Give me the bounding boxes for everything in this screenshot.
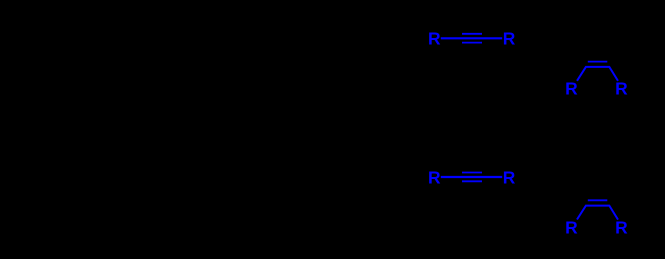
wire: alkene 1 skeleton (diag-horizontal-diag) <box>577 67 618 81</box>
wire: alkyne 2 triple bond middle line <box>441 176 502 178</box>
wire: alkyne 2 triple bond top line <box>462 172 482 174</box>
wire: alkyne 1 triple bond middle line <box>441 37 502 39</box>
wire: alkene 1 double bond inner line <box>588 61 608 63</box>
svg-text:R: R <box>565 79 578 99</box>
alkyne 2: R-C#C-R (bottom) <box>428 167 516 187</box>
svg-text:R: R <box>428 167 441 187</box>
svg-text:R: R <box>428 29 441 49</box>
svg-text:R: R <box>615 79 628 99</box>
svg-text:R: R <box>503 29 516 49</box>
wire: alkyne 1 triple bond bottom line <box>462 42 482 44</box>
wire: alkene 2 skeleton (diag-horizontal-diag) <box>577 206 618 220</box>
cis-alkene 2 (bottom right) <box>565 200 628 237</box>
svg-text:R: R <box>503 167 516 187</box>
alkyne 1: R-C#C-R (top) <box>428 29 516 49</box>
wire: alkene 2 double bond inner line <box>588 199 608 201</box>
svg-text:R: R <box>565 217 578 237</box>
wire: alkyne 2 triple bond bottom line <box>462 180 482 182</box>
cis-alkene 1 (top right) <box>565 62 628 99</box>
wire: alkyne 1 triple bond top line <box>462 33 482 35</box>
svg-text:R: R <box>615 217 628 237</box>
